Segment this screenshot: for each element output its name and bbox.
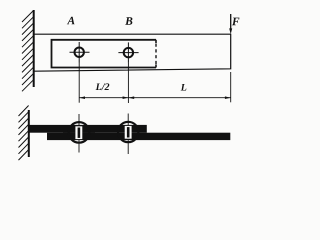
dimension line L/2: [79, 96, 128, 99]
rivet A (side view): [69, 122, 90, 143]
label A: [67, 17, 75, 25]
hidden edge dashed line: [155, 40, 157, 68]
wall line (plan view): [33, 10, 35, 87]
hole B: [118, 42, 138, 63]
wall hatching (side view): [19, 106, 29, 161]
rivet B (side view): [118, 122, 138, 142]
label L/2: [96, 83, 110, 90]
rivet B centerlines (side view): [112, 114, 144, 155]
upper plate outline (plan view): [52, 40, 157, 68]
label F: [232, 18, 239, 26]
extension line at A: [78, 63, 80, 103]
hole A: [70, 42, 90, 63]
extension line at F: [230, 72, 232, 102]
extension line at B: [127, 63, 129, 103]
rivet A centerlines (side view): [63, 114, 95, 153]
dimension line L: [128, 96, 230, 99]
label L: [181, 84, 187, 91]
upper plate (side view, fixed to wall): [29, 125, 147, 133]
lower strap bar outline (plan view): [34, 34, 231, 71]
force F arrow: [229, 14, 232, 34]
wall line (side view): [28, 110, 30, 157]
lower plate (side view, loaded end): [47, 133, 230, 140]
label B: [125, 17, 132, 25]
wall hatching (plan view): [22, 11, 34, 92]
